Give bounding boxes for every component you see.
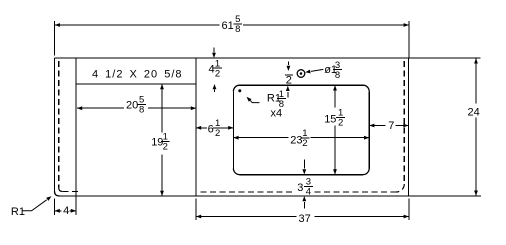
countertop bottom front edge (extended right as extension line for 24 dim) (59, 195, 481, 197)
svg-text:6: 6 (208, 123, 214, 135)
dimension 3 3/4 sink cutout to front edge (arrows outside) (297, 160, 313, 209)
svg-text:7: 7 (388, 120, 394, 132)
svg-text:2: 2 (338, 118, 343, 129)
dimension 19 1/2 left section front depth (151, 84, 170, 196)
svg-text:24: 24 (468, 107, 480, 119)
svg-text:4 1/2 X 20 5/8: 4 1/2 X 20 5/8 (92, 69, 183, 81)
svg-text:8: 8 (235, 24, 240, 35)
dimension 24 overall depth (468, 58, 480, 195)
svg-text:8: 8 (335, 70, 340, 81)
svg-text:2: 2 (302, 138, 307, 149)
dimension 4 1/2 backsplash depth (arrows outside) (209, 48, 222, 93)
svg-text:20: 20 (126, 100, 138, 112)
dimension 15 1/2 sink cutout depth (324, 85, 345, 174)
svg-text:2: 2 (163, 142, 168, 153)
dimension 23 1/2 sink cutout width (233, 128, 369, 149)
svg-text:15: 15 (324, 114, 336, 126)
dimension 4 side splash width (55, 199, 76, 217)
note 4 1/2 X 20 5/8 cutout size (92, 69, 183, 81)
svg-text:4: 4 (209, 64, 215, 76)
hidden cabinet outline under right section (198, 61, 405, 192)
seam between left and right countertop sections (195, 58, 197, 196)
dimension 1/2 faucet hole setback (arrows outside) (285, 62, 293, 98)
countertop top back edge (extended right as extension line for 24 dim) (55, 57, 481, 59)
dimension 37 right section width (196, 199, 409, 226)
dimension 6 1/2 seam to sink cutout (196, 118, 233, 139)
dimension 7 sink cutout to right edge (369, 120, 408, 132)
svg-text:4: 4 (306, 187, 311, 198)
svg-text:23: 23 (290, 134, 302, 146)
note R1 1/8 x4 sink corner radii with leader arrow (238, 89, 285, 120)
countertop left edge (54, 58, 56, 192)
dimension 61 5/8 overall width: extension lines, dim line, arrows, text (55, 14, 409, 58)
text mask for 3 3/4 dimension (295, 177, 314, 195)
svg-text:37: 37 (299, 213, 311, 225)
svg-text:2: 2 (286, 75, 292, 87)
dimension 20 5/8 cutout width (77, 95, 196, 116)
svg-text:4: 4 (63, 205, 69, 217)
countertop right edge (408, 58, 410, 196)
svg-text:2: 2 (215, 68, 220, 79)
note diameter 1 3/8 faucet hole with leader arrow (305, 60, 342, 81)
side splash inner edge / cutout left edge (extended down as extension line for 4 dim) (75, 58, 77, 215)
svg-text:8: 8 (139, 105, 144, 116)
backsplash cutout bottom edge (4 1/2 x 20 5/8 notch) (76, 83, 196, 85)
hidden line under left side splash (vertical) (59, 61, 80, 192)
faucet hole circle with center mark (297, 70, 305, 78)
countertop bottom-left R1 corner (55, 191, 60, 196)
svg-text:3: 3 (297, 182, 303, 194)
svg-text:x4: x4 (271, 108, 283, 120)
svg-text:2: 2 (215, 128, 220, 139)
R1 corner radius note with leader arrow (11, 196, 52, 218)
svg-text:19: 19 (151, 137, 163, 149)
svg-text:R1: R1 (11, 206, 25, 218)
svg-text:61: 61 (222, 20, 234, 32)
sink cutout rounded rectangle (233, 85, 369, 174)
